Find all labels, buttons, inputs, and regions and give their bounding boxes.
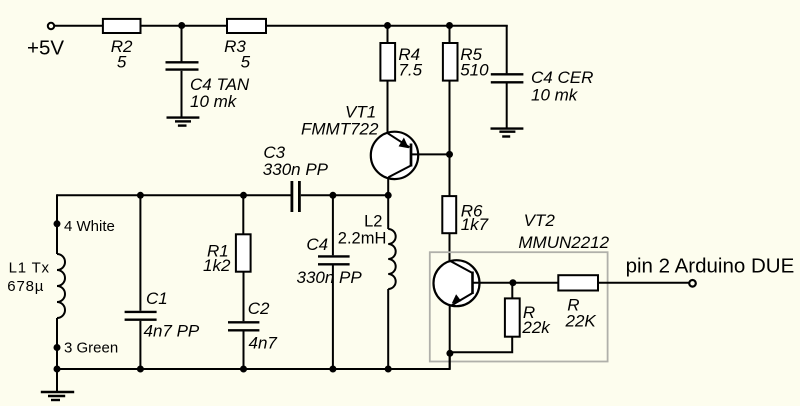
node junction C4 TAN tap — [178, 22, 185, 29]
wire C1 branch top — [139, 195, 141, 310]
resistor R2 — [103, 19, 141, 33]
node junction C1 tap — [137, 192, 144, 199]
svg-text:C2: C2 — [248, 299, 270, 318]
svg-text:C4: C4 — [306, 235, 328, 254]
node junction base/R5/R6 — [446, 151, 453, 158]
wire L1 bottom to bus — [56, 318, 58, 369]
wire C4 TAN to ground — [181, 71, 183, 118]
node junction R5 top — [446, 22, 453, 29]
svg-text:678µ: 678µ — [7, 278, 44, 295]
resistor R5 — [443, 43, 458, 81]
svg-text:C1: C1 — [146, 289, 168, 308]
wire C1 branch bottom — [139, 321, 141, 369]
capacitor C2 — [228, 322, 259, 330]
wire to R4 — [387, 26, 389, 43]
resistor R 22K (horizontal) — [558, 275, 598, 290]
wire middle bus right segment — [301, 194, 388, 196]
svg-text:3 Green: 3 Green — [64, 340, 118, 357]
wire R6 to VT2 — [449, 233, 451, 261]
wire middle bus left segment — [57, 194, 291, 196]
wire R4 to VT1 emitter — [387, 81, 389, 133]
node junction C4 330n tap — [329, 192, 336, 199]
svg-text:L1 Tx: L1 Tx — [9, 260, 50, 277]
wire C4 330n bottom — [332, 265, 334, 369]
node junction R4 top — [384, 22, 391, 29]
svg-text:FMMT722: FMMT722 — [301, 120, 379, 139]
wire R3 to top-right corner — [266, 25, 508, 27]
svg-text:10 mk: 10 mk — [190, 92, 238, 111]
node junction base/R22k — [509, 279, 516, 286]
capacitor C3 (series) — [292, 181, 300, 212]
svg-text:5: 5 — [117, 53, 127, 72]
svg-text:L2: L2 — [364, 213, 382, 231]
terminal pin 2 output — [689, 280, 696, 287]
wire L2 bottom — [387, 289, 389, 369]
svg-text:4 White: 4 White — [64, 218, 115, 235]
resistor R 22k (vertical) — [505, 298, 520, 336]
svg-text:2.2mH: 2.2mH — [338, 230, 387, 248]
node junction ground tap — [54, 366, 61, 373]
wire C4 CER to ground — [506, 83, 508, 128]
resistor R1 — [236, 234, 251, 271]
capacitor C4 TAN — [166, 62, 199, 69]
svg-text:C4 TAN: C4 TAN — [190, 75, 250, 94]
svg-text:4n7 PP: 4n7 PP — [144, 321, 200, 340]
resistor R6 — [442, 196, 456, 233]
svg-text:330n PP: 330n PP — [263, 160, 329, 179]
svg-text:1k7: 1k7 — [461, 215, 489, 234]
terminal +5V input — [48, 23, 54, 29]
svg-text:10 mk: 10 mk — [531, 86, 579, 105]
ground (main, bottom left) — [41, 392, 74, 400]
wire C4 330n branch top — [332, 195, 334, 255]
transistor VT2 (NPN MMUN2212) — [434, 260, 480, 306]
svg-text:22k: 22k — [521, 318, 551, 337]
svg-text:1k2: 1k2 — [203, 256, 231, 275]
node junction C1 bottom — [137, 366, 144, 373]
svg-text:+5V: +5V — [27, 37, 64, 60]
svg-text:MMUN2212: MMUN2212 — [518, 233, 609, 252]
inductor L1 — [57, 254, 65, 318]
module box MMUN2212 (gray outline) — [430, 252, 608, 361]
node junction C4 330n bottom — [329, 366, 336, 373]
wire left riser from middle bus — [56, 194, 58, 254]
svg-text:22K: 22K — [565, 311, 597, 330]
wire R2 to R3 — [141, 25, 228, 27]
node 4 White — [54, 220, 61, 227]
wire L2 top — [387, 195, 389, 229]
wire VT2 base to node — [473, 282, 559, 284]
wire down to C4 TAN — [181, 26, 183, 62]
ground (below C4 TAN) — [167, 118, 200, 126]
node junction L2 bottom — [385, 366, 392, 373]
capacitor C4 CER — [491, 74, 524, 82]
svg-text:510: 510 — [460, 61, 489, 80]
node junction emitter/R22k — [446, 350, 453, 357]
wire R 22K to output terminal — [598, 282, 689, 284]
wire R 22k bottom to emitter line — [450, 337, 512, 353]
svg-text:7.5: 7.5 — [398, 61, 422, 80]
inductor L2 — [388, 229, 396, 289]
wire R5 to VT1 base node — [449, 81, 451, 155]
transistor VT1 (PNP FMMT722) — [371, 132, 418, 179]
wire R1 branch top — [242, 195, 244, 234]
node 3 Green — [54, 344, 61, 351]
svg-text:VT2: VT2 — [524, 211, 556, 230]
wire node down to R 22k — [511, 283, 513, 298]
wire VT1 base to node — [411, 153, 450, 155]
wire R1 to C2 — [243, 272, 245, 322]
wire top bus corner down to C4 CER — [506, 25, 508, 73]
node junction VT1 collector / L2 — [385, 192, 392, 199]
wire VT2 emitter down — [449, 306, 451, 370]
resistor R4 — [380, 43, 395, 81]
wire bottom bus — [57, 352, 450, 369]
wire to R5 — [449, 26, 451, 43]
resistor R3 — [227, 19, 266, 33]
wire terminal to R2 — [55, 25, 103, 27]
wire bus to ground — [56, 369, 58, 392]
capacitor C4 330n PP — [318, 256, 350, 264]
node junction R1 tap — [240, 192, 247, 199]
ground (below C4 CER) — [491, 129, 524, 137]
svg-text:pin 2 Arduino DUE: pin 2 Arduino DUE — [626, 254, 795, 277]
node junction C2 bottom — [240, 366, 247, 373]
svg-text:C4 CER: C4 CER — [531, 68, 593, 87]
wire VT1 collector down — [387, 177, 389, 195]
svg-text:330n PP: 330n PP — [297, 268, 363, 287]
capacitor C1 — [125, 312, 157, 320]
svg-text:4n7: 4n7 — [249, 333, 278, 352]
wire C2 bottom — [243, 331, 245, 369]
wire node to R6 — [449, 154, 451, 196]
svg-text:5: 5 — [241, 53, 251, 72]
